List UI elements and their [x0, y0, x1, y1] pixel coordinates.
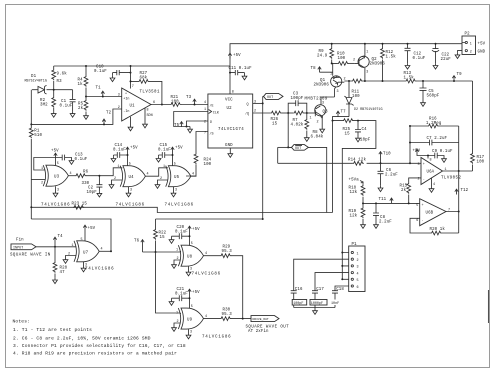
wire feedback B — [156, 218, 263, 220]
svg-text:DRIVE_OUT: DRIVE_OUT — [253, 318, 269, 321]
svg-text:R21: R21 — [171, 96, 179, 100]
svg-text:C14: C14 — [115, 144, 123, 148]
svg-text:C9 0.1uF: C9 0.1uF — [432, 150, 453, 154]
svg-text:2.2uF: 2.2uF — [385, 174, 398, 178]
flip-flop U2 74LVC1G74 — [208, 94, 253, 148]
XOR gate U5 — [166, 166, 191, 187]
node dot R3-D1-R2 — [53, 89, 55, 91]
svg-text:2. C6 - C8 are 2.2uF, 10%, 50V: 2. C6 - C8 are 2.2uF, 10%, 50V ceramic 1… — [13, 336, 151, 342]
wire R14 row from /OUT — [278, 147, 421, 163]
svg-text:1: 1 — [204, 108, 206, 112]
svg-text:R18: R18 — [349, 187, 357, 191]
power +5V U6A with C9 — [415, 149, 418, 154]
svg-text:0.1uF: 0.1uF — [94, 70, 107, 74]
svg-text:0.1uF: 0.1uF — [113, 149, 126, 153]
svg-text:+5V: +5V — [51, 150, 59, 154]
svg-text:5: 5 — [416, 204, 418, 208]
resistor R6 — [75, 174, 86, 178]
svg-text:C7 2.2uF: C7 2.2uF — [427, 137, 448, 141]
power +5V U7 — [83, 225, 86, 230]
wire DRIVE_OUT junction up — [242, 318, 244, 320]
svg-text:R17: R17 — [477, 156, 485, 160]
svg-text:12k: 12k — [350, 190, 358, 195]
svg-text:C22: C22 — [442, 54, 450, 58]
svg-text:Q1: Q1 — [320, 79, 326, 83]
svg-text:510: 510 — [34, 134, 42, 138]
U8 pin3 ground — [188, 266, 190, 270]
power +5V U3 — [54, 153, 57, 158]
svg-text:3: 3 — [190, 268, 192, 272]
svg-text:3: 3 — [366, 71, 368, 75]
XOR gate U4 — [120, 166, 145, 187]
svg-text:+5V: +5V — [233, 54, 241, 58]
resistor R17 — [472, 81, 474, 171]
svg-text:SQUARE WAVE OUT: SQUARE WAVE OUT — [246, 326, 290, 330]
wire D2 bottom to R25 node — [333, 117, 350, 121]
svg-text:R3: R3 — [57, 80, 63, 84]
svg-text:R23 15: R23 15 — [72, 203, 88, 207]
svg-text:R20 1k: R20 1k — [430, 227, 446, 232]
svg-text:15: 15 — [160, 236, 166, 240]
svg-text:+5V: +5V — [175, 147, 183, 151]
svg-text:/Q: /Q — [245, 112, 249, 117]
svg-text:C21: C21 — [177, 288, 185, 292]
wire top-left rail +5V — [54, 44, 462, 66]
ground below R2 — [51, 111, 56, 117]
svg-text:5: 5 — [191, 242, 193, 246]
svg-text:R27: R27 — [140, 72, 148, 76]
op-amp U6A — [421, 158, 443, 185]
svg-text:5: 5 — [357, 279, 359, 283]
svg-text:SQUARE WAVE IN: SQUARE WAVE IN — [10, 254, 51, 258]
svg-text:C5: C5 — [429, 90, 435, 94]
svg-text:74LVC1G74: 74LVC1G74 — [218, 128, 244, 132]
svg-text:6: 6 — [416, 219, 418, 223]
svg-text:U9: U9 — [187, 319, 193, 323]
svg-text:2: 2 — [41, 182, 43, 186]
resistor R18 — [362, 197, 364, 204]
svg-text:4: 4 — [70, 172, 72, 176]
svg-text:8: 8 — [147, 109, 149, 113]
svg-text:1.5k: 1.5k — [404, 76, 415, 81]
svg-text:7: 7 — [132, 85, 134, 89]
U8 pin1 wire — [180, 251, 182, 252]
resistor R10 — [337, 62, 348, 66]
short right edge mark — [487, 290, 489, 323]
flag OUT — [264, 93, 284, 99]
resistor R11 — [352, 79, 363, 83]
XOR gate U3 — [43, 165, 68, 186]
capacitor C18 — [332, 291, 338, 308]
svg-text:3: 3 — [118, 94, 120, 98]
svg-text:INPUT: INPUT — [13, 247, 23, 251]
power +5V U4 — [126, 147, 129, 152]
svg-text:C6: C6 — [386, 169, 392, 173]
capacitor C7 feedback — [410, 126, 459, 171]
svg-text:+: + — [423, 163, 425, 167]
svg-text:4.02k: 4.02k — [291, 123, 304, 128]
svg-text:U8: U8 — [187, 256, 193, 260]
svg-text:100pF: 100pF — [293, 302, 303, 306]
svg-text:U1: U1 — [130, 105, 136, 109]
svg-text:Fin: Fin — [16, 238, 24, 243]
wire feedback A — [31, 219, 111, 251]
svg-text:4. R18 and R19 are precision r: 4. R18 and R19 are precision resistors o… — [13, 351, 177, 357]
resistor R19 — [362, 203, 364, 222]
svg-text:4: 4 — [205, 252, 207, 256]
U3 pin2 from feedback — [31, 179, 45, 181]
svg-text:74LVC1G86: 74LVC1G86 — [165, 204, 194, 208]
wire Q output vertical long — [262, 96, 264, 219]
svg-text:74LVC1G86: 74LVC1G86 — [192, 273, 221, 277]
svg-text:10pF: 10pF — [87, 191, 98, 195]
svg-text:3: 3 — [85, 264, 87, 268]
resistor R7 — [293, 111, 304, 115]
svg-text:R25: R25 — [343, 128, 351, 132]
test point T2 — [102, 119, 105, 124]
svg-text:+5V: +5V — [192, 291, 200, 295]
svg-text:2: 2 — [317, 121, 319, 125]
svg-text:0.1uF: 0.1uF — [413, 57, 426, 61]
svg-text:5: 5 — [191, 305, 193, 309]
svg-text:R1: R1 — [34, 130, 40, 134]
svg-text:95.3: 95.3 — [222, 313, 233, 317]
U9 pin3 ground — [188, 329, 190, 333]
resistor R22 — [155, 219, 157, 252]
svg-text:4: 4 — [433, 183, 435, 187]
svg-text:4: 4 — [147, 173, 149, 177]
svg-text:C4: C4 — [362, 128, 368, 132]
svg-text:Q: Q — [247, 103, 249, 107]
svg-text:100: 100 — [477, 161, 485, 165]
svg-text:10nF: 10nF — [331, 302, 339, 306]
svg-text:R29: R29 — [223, 246, 231, 250]
svg-text:100: 100 — [204, 163, 212, 167]
svg-text:U5: U5 — [174, 176, 180, 180]
capacitor C16 — [291, 291, 297, 308]
svg-text:C11 0.1uF: C11 0.1uF — [229, 67, 253, 71]
resistor R20 feedback — [410, 218, 459, 233]
resistor R25 — [343, 119, 354, 123]
resistor R1 — [30, 124, 32, 219]
svg-text:3: 3 — [337, 90, 339, 94]
resistor R3 — [53, 66, 55, 90]
wire long vertical to bottom rail — [332, 121, 334, 213]
power +5V U8 — [188, 226, 191, 231]
U2 GND pin ground — [229, 148, 231, 152]
U2 pin2 D loop — [187, 121, 208, 127]
svg-text:1: 1 — [176, 249, 178, 253]
svg-text:Q3: Q3 — [323, 111, 329, 115]
svg-text:1: 1 — [118, 165, 120, 169]
svg-text:R19: R19 — [349, 210, 357, 214]
svg-text:D2 RB751V40T1G: D2 RB751V40T1G — [354, 108, 383, 112]
wire U4 output — [145, 168, 168, 176]
svg-text:MMBT2369: MMBT2369 — [305, 98, 328, 102]
svg-text:100: 100 — [338, 57, 346, 61]
svg-text:3: 3 — [418, 163, 420, 167]
capacitor C10 — [110, 76, 115, 82]
svg-text:R30: R30 — [223, 309, 231, 313]
svg-text:3: 3 — [130, 189, 132, 193]
U2 pin1 CLK loop — [174, 112, 208, 128]
svg-text:6.04k: 6.04k — [311, 135, 324, 140]
connector P1 — [349, 246, 365, 292]
resistor R26 — [270, 111, 281, 115]
resistor R2 — [53, 90, 55, 112]
P1 odd pin stubs to rail — [342, 253, 348, 280]
svg-text:U6A: U6A — [427, 171, 435, 175]
P1 pin4 wire to C17 — [315, 273, 349, 291]
resistor R28 — [54, 247, 56, 278]
svg-text:R10: R10 — [337, 53, 345, 57]
capacitor C13 — [56, 155, 72, 161]
flag DRIVE_OUT — [251, 316, 279, 322]
svg-text:5: 5 — [81, 238, 83, 242]
svg-text:R28: R28 — [60, 267, 68, 271]
svg-text:C1: C1 — [61, 100, 67, 104]
U5 pin2 ground — [158, 180, 168, 183]
svg-text:5: 5 — [174, 163, 176, 167]
wire U1 output — [151, 104, 208, 106]
svg-text:R2: R2 — [40, 99, 46, 103]
flag /OUT — [292, 145, 309, 151]
svg-text:1: 1 — [357, 252, 359, 256]
transistor Q3 MMBT2369 — [315, 105, 326, 116]
svg-text:560pF: 560pF — [427, 95, 440, 99]
wire U1 pin7 supply — [130, 66, 132, 89]
svg-text:T6: T6 — [134, 240, 140, 244]
svg-text:2: 2 — [177, 257, 179, 261]
resistor R30 — [220, 317, 231, 321]
svg-text:4: 4 — [204, 101, 206, 105]
U9 pin2 ground — [174, 323, 181, 326]
diode D2 — [344, 81, 353, 117]
svg-text:C18: C18 — [336, 288, 344, 292]
svg-text:GND: GND — [225, 144, 233, 148]
svg-text:1000pF: 1000pF — [311, 302, 323, 306]
capacitor C22 polarized — [433, 44, 439, 64]
svg-text:4: 4 — [357, 272, 359, 276]
svg-text:C13: C13 — [75, 154, 83, 158]
svg-text:0.1uF: 0.1uF — [158, 149, 171, 153]
svg-text:1: 1 — [176, 312, 178, 316]
svg-text:47: 47 — [60, 271, 66, 275]
svg-text:T9: T9 — [457, 73, 463, 77]
svg-text:R11: R11 — [352, 91, 360, 95]
svg-text:P1: P1 — [352, 243, 358, 247]
svg-text:5: 5 — [57, 162, 59, 166]
wire /OUT to mid vertical — [308, 147, 326, 212]
U3 pin1 loop to +5V node — [34, 158, 56, 171]
svg-text:100pF: 100pF — [291, 97, 304, 101]
resistor R13 — [405, 79, 416, 83]
svg-text:10pF: 10pF — [360, 139, 371, 143]
capacitor C3 parallel branch — [288, 100, 307, 113]
svg-text:C16: C16 — [295, 288, 303, 292]
svg-text:+: + — [125, 93, 127, 97]
svg-text:2: 2 — [353, 59, 355, 63]
capacitor C15 — [156, 156, 161, 162]
svg-text:4: 4 — [205, 315, 207, 319]
wire to /OUT flag — [288, 113, 291, 147]
resistor R9 — [331, 44, 333, 64]
capacitor C4 — [355, 121, 361, 136]
U1 SDN pin — [144, 108, 146, 122]
svg-text:C8: C8 — [380, 216, 386, 220]
wire D1 left vertical — [30, 90, 32, 125]
svg-text:2: 2 — [68, 253, 70, 257]
svg-text:OUT: OUT — [295, 147, 301, 151]
svg-text:4: 4 — [101, 248, 103, 252]
resistor R27 feedback — [131, 81, 162, 104]
svg-text:T8: T8 — [311, 67, 317, 71]
resistor R12 — [382, 44, 384, 81]
wire node row D1 R3 R2 C1 — [32, 89, 73, 91]
U2 pin7 /S to R24 — [196, 132, 208, 154]
svg-text:100: 100 — [352, 95, 360, 99]
test point T8 — [318, 67, 321, 72]
capacitor C21 — [169, 300, 174, 306]
U6A pin4 ground — [431, 178, 433, 187]
flag INPUT — [11, 244, 36, 250]
wire U8 output — [204, 255, 221, 257]
svg-text:0.1uF: 0.1uF — [175, 231, 188, 235]
U4 pin2 ground — [112, 180, 123, 183]
svg-text:22uF: 22uF — [441, 58, 452, 62]
svg-text:T1: T1 — [96, 87, 102, 91]
svg-text:6: 6 — [357, 286, 359, 290]
svg-text:2N3906: 2N3906 — [370, 63, 386, 67]
svg-text:0.1uF: 0.1uF — [75, 158, 88, 162]
capacitor C1 — [70, 90, 76, 112]
test point T11 — [390, 198, 393, 203]
svg-text:AT 2xFin: AT 2xFin — [248, 329, 269, 334]
svg-text:2: 2 — [470, 50, 472, 54]
svg-text:R26: R26 — [271, 118, 279, 122]
U4 pin3 ground — [128, 187, 130, 191]
capacitor C14 — [111, 156, 116, 162]
svg-text:/E: /E — [210, 104, 214, 109]
svg-text:R6: R6 — [83, 171, 89, 175]
svg-text:TLV3501: TLV3501 — [140, 91, 160, 95]
svg-text:+5Va: +5Va — [349, 179, 360, 183]
svg-text:R16: R16 — [429, 118, 437, 122]
XOR gate U9 — [178, 308, 203, 329]
svg-text:+: + — [422, 204, 424, 208]
svg-text:RB751V40T1G: RB751V40T1G — [25, 80, 47, 84]
svg-text:68k: 68k — [140, 76, 148, 81]
resistor R8 — [306, 113, 308, 136]
svg-text:C12: C12 — [414, 53, 422, 57]
power +5V U9 — [188, 289, 191, 294]
svg-text:T3: T3 — [186, 96, 192, 100]
capacitor C20 — [169, 238, 174, 244]
resistor R14 — [353, 161, 364, 165]
capacitor C17 — [312, 291, 318, 308]
transistor Q2 2N3906 — [358, 56, 369, 67]
svg-text:2k: 2k — [78, 106, 84, 111]
connector P2 — [462, 36, 476, 55]
svg-text:C20: C20 — [177, 226, 185, 230]
svg-text:9.6k: 9.6k — [57, 72, 68, 77]
power +5V U5 — [171, 147, 174, 152]
svg-text:R5: R5 — [78, 103, 84, 107]
wire caps common ground — [294, 308, 335, 309]
svg-text:0.1uF: 0.1uF — [60, 105, 73, 109]
svg-text:GND: GND — [478, 51, 486, 55]
capacitor C8 — [373, 203, 379, 222]
svg-text:1: 1 — [72, 244, 74, 248]
power +5V symbol top — [228, 53, 231, 58]
svg-text:2: 2 — [160, 177, 162, 181]
svg-text:OUT: OUT — [267, 96, 273, 100]
capacitor C2 — [96, 176, 102, 192]
test point T9 — [452, 76, 455, 81]
svg-text:100: 100 — [171, 101, 179, 105]
svg-text:/S: /S — [210, 132, 214, 137]
U6A pin2 wire R15 — [409, 178, 421, 204]
capacitor C11 — [230, 70, 245, 75]
svg-text:-: - — [422, 220, 424, 224]
svg-text:95.3: 95.3 — [222, 250, 233, 254]
svg-text:2.2uF: 2.2uF — [379, 221, 392, 225]
svg-text:D1: D1 — [31, 75, 37, 79]
svg-text:2: 2 — [357, 259, 359, 263]
test point T3 — [193, 99, 196, 104]
wire +In — [86, 96, 122, 98]
ground below C1 — [70, 111, 75, 117]
svg-text:7: 7 — [204, 132, 206, 136]
svg-text:+5V: +5V — [413, 150, 421, 154]
XOR gate U8 — [178, 245, 203, 266]
svg-text:D: D — [210, 121, 212, 125]
svg-text:74LVC1G86: 74LVC1G86 — [85, 268, 114, 272]
wire R25 row — [333, 121, 376, 253]
svg-text:R9: R9 — [319, 50, 325, 54]
svg-text:3: 3 — [254, 101, 256, 105]
svg-text:R15: R15 — [400, 185, 408, 189]
resistor R16 feedback — [410, 125, 459, 127]
capacitor C9 — [428, 153, 444, 159]
ground rail XOR row — [31, 207, 332, 212]
resistor R24 — [186, 165, 196, 177]
resistor R4 — [85, 66, 87, 97]
svg-text:2: 2 — [118, 106, 120, 110]
svg-text:1: 1 — [366, 51, 368, 55]
U3 pin3 ground — [55, 186, 57, 191]
svg-text:R14 12k: R14 12k — [348, 158, 366, 163]
svg-text:U2: U2 — [227, 107, 233, 111]
svg-text:+5V: +5V — [88, 227, 96, 231]
wire down to U9 input — [156, 252, 181, 313]
wire pin3 node — [409, 143, 411, 164]
svg-text:R8: R8 — [313, 131, 319, 135]
resistor R21 — [170, 103, 181, 107]
svg-text:3. Connector P1 provides selec: 3. Connector P1 provides selectability f… — [13, 343, 186, 349]
wire bottom feedback rail — [31, 109, 121, 124]
svg-text:+In: +In — [123, 98, 129, 102]
svg-text:5: 5 — [129, 163, 131, 167]
U7 pin2 ground — [66, 256, 77, 258]
transistor Q1 2N3906 — [331, 76, 342, 87]
svg-text:15: 15 — [345, 133, 351, 137]
svg-text:8: 8 — [430, 159, 432, 163]
svg-text:-In: -In — [123, 110, 129, 114]
svg-text:U6B: U6B — [426, 212, 434, 216]
svg-text:3: 3 — [322, 102, 324, 106]
resistor R23 — [73, 205, 84, 209]
